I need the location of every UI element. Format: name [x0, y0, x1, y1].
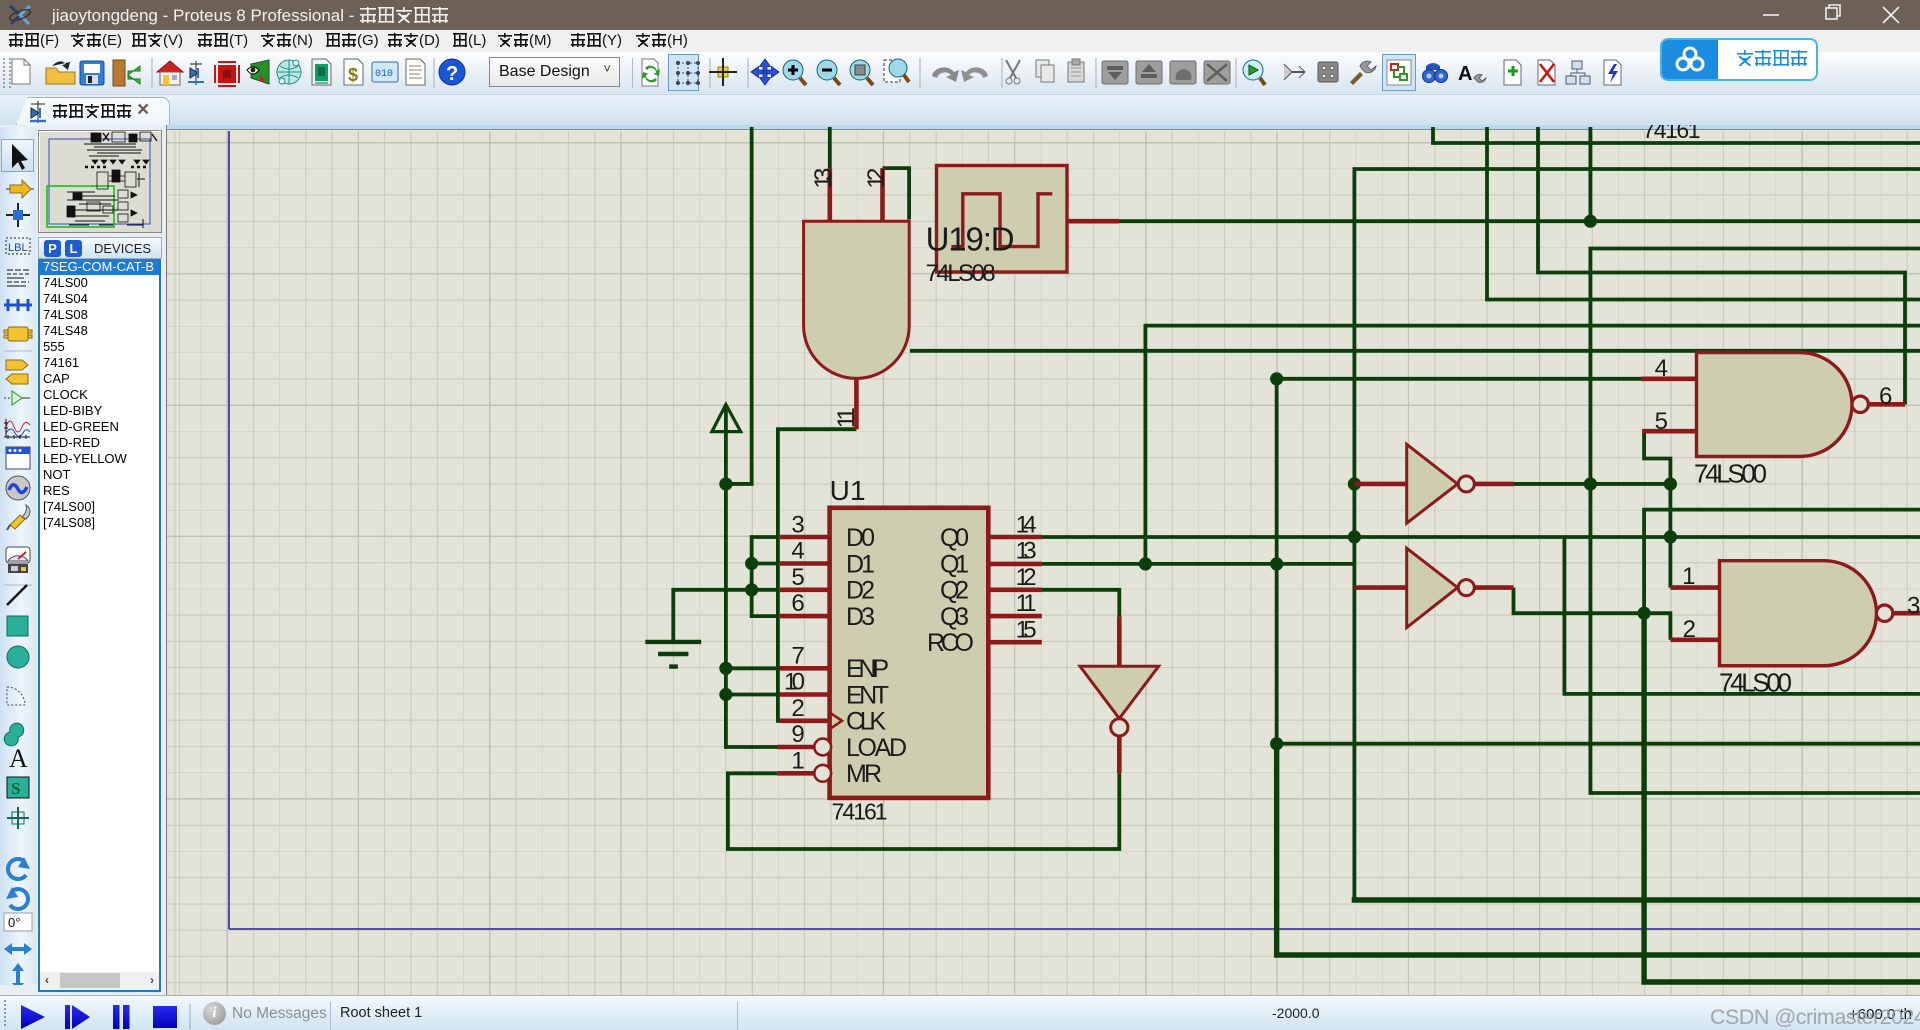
U1 pin numbers left — [784, 512, 805, 775]
svg-text:3: 3 — [1907, 593, 1920, 620]
AND gate pin 12 stub — [880, 168, 885, 221]
svg-text:4: 4 — [1655, 355, 1668, 382]
svg-text:74LS00: 74LS00 — [1719, 668, 1792, 698]
svg-text:11: 11 — [1016, 590, 1037, 617]
svg-text:74161: 74161 — [832, 799, 888, 825]
pulse waveform — [951, 194, 1052, 247]
wire: VCC rail vertical from canvas top to power node — [726, 127, 752, 484]
svg-text:RCO: RCO — [927, 629, 974, 657]
wire: T drop x=1563 to row 693 — [1564, 537, 1920, 694]
svg-text:LOAD: LOAD — [846, 734, 907, 762]
svg-text:D3: D3 — [846, 603, 875, 631]
svg-text:1: 1 — [1682, 563, 1695, 590]
wire: row 169 vertical 1353 down to row 900 — [1354, 169, 1920, 901]
svg-text:?: ? — [446, 63, 458, 85]
node: D1 tie junction — [745, 557, 758, 570]
wire: power node down to LOAD pin — [726, 484, 778, 747]
svg-text:A: A — [1458, 63, 1472, 85]
U1 CLK chevron — [830, 712, 842, 729]
wire: NOT1 output row to NAND pins column — [1514, 482, 1671, 486]
wire: MR net down to bottom and up to inverter — [728, 773, 1119, 849]
svg-text:13: 13 — [810, 168, 837, 189]
wire: ENP stub — [726, 666, 780, 670]
node: power rail junction — [719, 477, 732, 490]
inverter NOT1 — [1354, 482, 1406, 487]
wire: pin5 S-bend — [1644, 431, 1670, 484]
node: NOT2 output junction — [1638, 607, 1651, 620]
U1 left pin stubs D0-D3 ENP ENT CLK — [780, 537, 830, 721]
AND gate output pin 11 stub — [854, 378, 859, 429]
svg-text:U19:D: U19:D — [926, 221, 1015, 258]
U1 LOAD pin stub with bubble — [777, 745, 814, 750]
svg-text:U1: U1 — [830, 475, 866, 506]
node: NAND1 pin4 junction — [1270, 372, 1283, 385]
wire: vertical x=1589 from top to node 221 — [1589, 127, 1593, 221]
wire: Q0 row — [1042, 535, 1920, 539]
wire: Q1 vertical 1144 up to row 325 — [1145, 326, 1920, 564]
NAND gate 2 body — [1720, 561, 1877, 666]
svg-text:2: 2 — [1683, 616, 1696, 643]
svg-text:13: 13 — [1016, 538, 1037, 565]
wire: Q2 row to down-inverter — [1042, 590, 1119, 616]
wire: AND output to CLK pin — [778, 429, 857, 721]
wire: vertical 1432 to row 143 — [1433, 127, 1920, 143]
svg-text:010: 010 — [375, 69, 393, 80]
svg-text:1: 1 — [791, 747, 804, 774]
NAND2 pin numbers — [1682, 563, 1920, 643]
AND gate pin 13 stub — [827, 169, 832, 222]
svg-text:MR: MR — [846, 760, 882, 788]
svg-text:0°: 0° — [8, 915, 20, 930]
AND gate U19:D body — [804, 221, 910, 378]
svg-text:Q0: Q0 — [940, 524, 969, 552]
down inverter below Q2 — [1117, 616, 1122, 666]
wire: row 743 — [1277, 742, 1920, 746]
sheet border blue — [229, 131, 1920, 929]
svg-text:D1: D1 — [846, 550, 875, 578]
svg-text:12: 12 — [863, 168, 890, 189]
svg-text:Q3: Q3 — [940, 603, 969, 631]
svg-text:3: 3 — [791, 512, 804, 539]
wire: pin4 row from node 1275 — [1277, 377, 1644, 381]
wire: vertical 1537 to row 272 across to NAND1 output drop — [1538, 127, 1905, 405]
svg-text:14: 14 — [1016, 512, 1037, 539]
U1 pin numbers right — [1016, 512, 1037, 644]
U1 right pin stubs Q0-Q3 RCO — [988, 537, 1042, 642]
svg-text:74LS00: 74LS00 — [1694, 458, 1767, 488]
wire: bottom row y=900 — [1354, 897, 1920, 900]
svg-text:ENT: ENT — [846, 681, 889, 709]
wire: row 248 to vertical 1589 down to row 793 — [1590, 249, 1920, 794]
wire: bottom bus row y=982 — [1644, 613, 1920, 982]
wire: vertical x=1275 down to row 951 — [1275, 379, 1279, 745]
svg-text:6: 6 — [791, 590, 804, 617]
node: NAND2 pin1 junction — [1664, 477, 1677, 490]
svg-text:15: 15 — [1016, 616, 1037, 643]
svg-text:S: S — [11, 779, 20, 798]
pulse generator output stub — [1067, 219, 1119, 224]
wire: Q1 row — [1042, 562, 1354, 566]
U1 MR pin stub with bubble — [777, 771, 814, 776]
svg-text:CLK: CLK — [846, 708, 886, 736]
node: Q1 branch junction — [1139, 557, 1152, 570]
pulse generator box — [937, 166, 1068, 273]
NAND gate 1 body — [1697, 353, 1853, 457]
ground — [645, 642, 701, 667]
svg-text:4: 4 — [791, 538, 804, 565]
svg-text:7: 7 — [791, 642, 804, 669]
U1 pin names — [846, 524, 907, 788]
svg-text:74161: 74161 — [1643, 125, 1701, 143]
svg-text:5: 5 — [1655, 408, 1668, 435]
wire: vertical 1643 row 509 and down to row 987 — [1644, 510, 1920, 615]
74161 counter U1 body — [830, 508, 989, 798]
svg-text:D2: D2 — [846, 577, 875, 605]
svg-text:5: 5 — [791, 564, 804, 591]
svg-text:12: 12 — [1016, 564, 1037, 591]
wire: NAND2 pin1 drop — [1669, 484, 1673, 588]
node: ENT junction — [719, 688, 732, 701]
power terminal arrow — [712, 405, 741, 484]
svg-text:6: 6 — [1879, 383, 1892, 410]
svg-text:Q2: Q2 — [940, 577, 969, 605]
svg-text:D0: D0 — [846, 524, 875, 552]
node: row-743 junction — [1270, 737, 1283, 750]
wire: bottom bus row y=955 — [1277, 744, 1920, 955]
wire: pin13 of AND from canvas top — [828, 127, 832, 169]
wire: ENT stub — [726, 693, 780, 697]
node: pulse row junction — [1584, 215, 1597, 228]
node: NOT1 input junction — [1348, 477, 1361, 490]
svg-text:ENP: ENP — [846, 655, 889, 683]
node: Q0 column junction — [1348, 530, 1361, 543]
svg-text:Q1: Q1 — [940, 550, 969, 578]
NAND1 pin stubs — [1641, 379, 1905, 431]
node: Q1 column junction — [1270, 557, 1283, 570]
svg-text:$: $ — [348, 65, 358, 85]
wire: pulse generator output row y=221 — [1119, 219, 1920, 223]
inverter NOT2 — [1354, 585, 1406, 590]
svg-text:LBL: LBL — [8, 242, 28, 254]
node: NOT1 output junction — [1584, 477, 1597, 490]
svg-text:74LS08: 74LS08 — [926, 260, 996, 287]
wire: vertical 1486 to row 299 — [1487, 127, 1920, 300]
node: ENP junction — [719, 662, 732, 675]
NAND2 pin stubs — [1670, 588, 1920, 640]
wire: pin12 of AND U-bend — [883, 168, 910, 219]
svg-text:2: 2 — [791, 695, 804, 722]
wire: NOT2 output to NAND2 pin2 — [1514, 588, 1671, 640]
svg-text:A: A — [9, 744, 28, 773]
svg-text:10: 10 — [784, 669, 805, 696]
node: D2 ground junction — [745, 583, 758, 596]
wire: ground riser and D2 row — [673, 590, 778, 641]
svg-text:11: 11 — [833, 407, 860, 428]
wire: AND-area row y=351 — [910, 349, 1920, 353]
NAND1 pin numbers — [1655, 355, 1893, 435]
node: Q0 NAND column junction — [1664, 530, 1677, 543]
svg-text:9: 9 — [791, 721, 804, 748]
wire: D-pin tie rail D0-D3 — [752, 537, 778, 616]
